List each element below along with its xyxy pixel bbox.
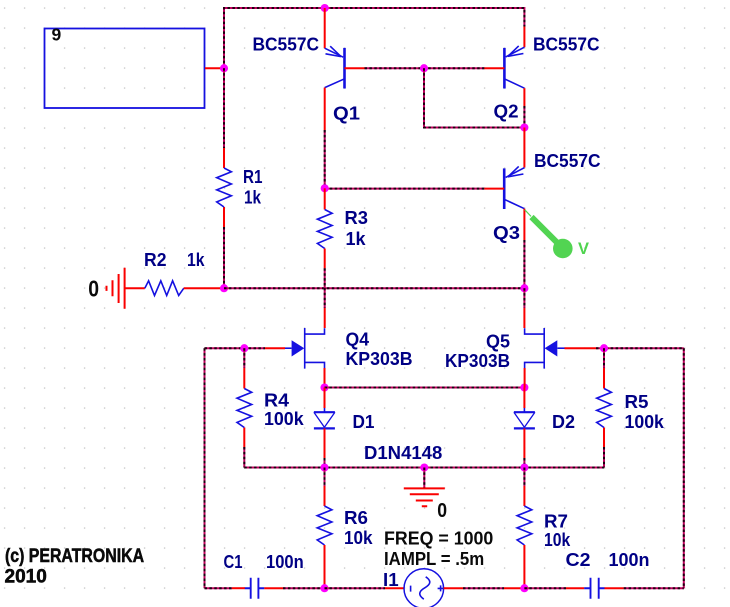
svg-text:9: 9 xyxy=(52,25,62,45)
battery V1 box xyxy=(45,29,205,109)
ground to R2 wire xyxy=(125,287,145,289)
ground 0 (left) symbol xyxy=(107,268,125,309)
node: R5 top / gate xyxy=(600,344,608,352)
transistor Q4 drain pin xyxy=(324,308,326,328)
node: Q5 source / D2 xyxy=(520,383,528,391)
capacitor C1 right pin xyxy=(264,587,283,589)
wire: R1 bottom to left node xyxy=(223,227,225,288)
resistor R6 top wire xyxy=(324,468,326,487)
svg-text:Q5: Q5 xyxy=(486,332,510,352)
wire: D1 to low rail xyxy=(324,458,326,468)
transistor Q2 collector pin xyxy=(523,88,525,106)
transistor Q3 xyxy=(504,166,524,209)
wire: C1 to R6 node xyxy=(283,587,325,589)
diode D2 cathode pin xyxy=(523,428,525,458)
wire: right frame xyxy=(683,348,685,588)
transistor Q2 emitter pin xyxy=(523,27,525,48)
resistor R7 body xyxy=(517,506,532,545)
wire: bottom rail left segment xyxy=(205,587,233,589)
diode D2 xyxy=(514,408,535,428)
svg-text:D1N4148: D1N4148 xyxy=(364,443,442,463)
svg-text:D2: D2 xyxy=(552,412,575,432)
resistor R4 body xyxy=(237,389,252,428)
svg-text:10k: 10k xyxy=(344,528,374,548)
wire red stub into R7 node xyxy=(504,587,524,589)
svg-text:Q2: Q2 xyxy=(494,102,519,122)
node: base rail / feedback xyxy=(420,64,428,72)
wire: D2 to low rail xyxy=(523,458,525,468)
capacitor C2 right pin xyxy=(605,587,624,589)
wire: node to Q3 emitter xyxy=(523,128,525,168)
svg-text:R1: R1 xyxy=(243,167,263,187)
node: Q3 collector / mid rail / Q5 drain xyxy=(520,284,528,292)
node: D1 / low rail xyxy=(320,463,328,471)
transistor Q5 (JFET) xyxy=(525,328,565,369)
svg-text:R4: R4 xyxy=(264,391,289,411)
svg-text:D1: D1 xyxy=(353,412,375,432)
wire: Q2 collector to node xyxy=(523,106,525,128)
resistor R5 top wire xyxy=(603,348,605,368)
svg-text:R6: R6 xyxy=(344,508,368,528)
transistor Q1 emitter pin xyxy=(324,8,326,48)
node: ground / low rail xyxy=(420,463,428,471)
wire: Q5 drain from mid rail xyxy=(523,288,525,308)
capacitor C1 xyxy=(245,587,264,589)
wire: base node down and to Q2 collector xyxy=(424,68,524,127)
capacitor C2 xyxy=(584,587,604,589)
svg-text:1k: 1k xyxy=(244,188,262,208)
wire: Q3 base to R3 node xyxy=(325,188,485,190)
svg-text:V: V xyxy=(578,240,589,258)
svg-text:FREQ = 1000: FREQ = 1000 xyxy=(384,529,493,549)
wire: battery to top rail and VCC top rail xyxy=(224,8,524,68)
svg-text:2010: 2010 xyxy=(5,567,47,588)
transistor Q1 collector pin xyxy=(324,88,326,130)
resistor R7 top wire xyxy=(523,468,525,487)
resistor R5 body xyxy=(597,389,612,428)
svg-text:C1: C1 xyxy=(224,552,243,572)
transistor Q1 base pin xyxy=(345,67,365,69)
wire: left frame xyxy=(204,348,206,588)
wire: R4 bottom to low rail xyxy=(243,447,245,468)
svg-text:100n: 100n xyxy=(609,550,650,570)
capacitor C2 left pin xyxy=(566,587,584,589)
wire: mid rail xyxy=(224,287,524,289)
node: C1 / R6 / I1 xyxy=(320,584,328,592)
diode D1 cathode pin xyxy=(324,428,326,458)
resistor R3 body xyxy=(317,210,332,249)
wire: I1 to R7 node xyxy=(463,587,504,589)
wire: R3 bottom across mid rail to Q4 drain xyxy=(324,268,326,308)
svg-text:BC557C: BC557C xyxy=(534,151,601,171)
resistor R4 pins xyxy=(243,368,245,447)
wire: R5 bottom to low rail xyxy=(603,447,605,468)
transistor Q2 xyxy=(504,46,524,89)
resistor R1 pins xyxy=(223,148,225,227)
wire: gate rail left xyxy=(205,347,266,349)
wire: C2 to right frame xyxy=(624,587,684,589)
transistor Q1 xyxy=(325,46,345,88)
svg-text:(c) PERATRONIKA: (c) PERATRONIKA xyxy=(5,545,144,567)
current source I1 xyxy=(404,569,444,607)
diode D1 xyxy=(314,408,335,428)
transistor Q5 drain pin xyxy=(523,308,525,328)
wire: Q1 base to Q2 base xyxy=(365,67,485,69)
transistor Q3 collector pin xyxy=(523,209,525,240)
transistor Q4 (JFET) xyxy=(285,328,325,369)
node: R4 top / gate xyxy=(240,344,248,352)
svg-text:100k: 100k xyxy=(264,409,305,429)
resistor R7 top pin xyxy=(523,486,525,506)
transistor Q5 gate pin xyxy=(565,347,597,349)
svg-text:IAMPL = .5m: IAMPL = .5m xyxy=(384,549,484,569)
svg-text:KP303B: KP303B xyxy=(445,351,510,371)
transistor Q4 source pin xyxy=(324,368,326,388)
svg-text:R7: R7 xyxy=(544,512,568,532)
wire: source rail Q4 to Q5 xyxy=(325,387,525,389)
node: battery / R1 top xyxy=(220,64,228,72)
wire: low rail xyxy=(244,467,604,469)
transistor Q3 base pin xyxy=(484,188,504,190)
resistor R2 body xyxy=(145,281,184,296)
svg-text:1k: 1k xyxy=(346,229,367,249)
node: Q1 collector / R3 / Q3 base xyxy=(321,184,329,192)
wire: R1 top xyxy=(223,68,225,148)
svg-text:R3: R3 xyxy=(345,208,369,228)
ground 0 (bottom) stub wire xyxy=(423,468,425,489)
resistor R5 pins xyxy=(603,368,605,447)
current source I1 right pin xyxy=(444,587,463,589)
resistor R2 right pin xyxy=(184,287,224,289)
svg-text:100k: 100k xyxy=(625,412,665,432)
current source I1 left pin xyxy=(385,587,404,589)
voltage probe (green) xyxy=(525,210,573,258)
capacitor C1 left pin xyxy=(232,587,245,589)
resistor R1 body xyxy=(217,168,232,207)
svg-text:BC557C: BC557C xyxy=(533,35,600,55)
node: top rail / Q1 emitter xyxy=(321,4,329,12)
wire: Q1 collector to R3 node xyxy=(324,130,326,188)
resistor R3 top pin xyxy=(324,188,326,209)
copyright text xyxy=(5,545,145,588)
resistor R6 top pin xyxy=(324,486,326,506)
diode D2 anode pin xyxy=(523,388,525,409)
transistor Q2 base pin xyxy=(484,67,504,69)
svg-text:R2: R2 xyxy=(144,250,167,270)
resistor R6 bottom pin xyxy=(324,545,326,588)
node: Q2 collector / Q3 emitter xyxy=(520,123,528,131)
node: D2 / low rail xyxy=(520,463,528,471)
transistor Q4 gate pin xyxy=(265,347,285,349)
svg-text:Q3: Q3 xyxy=(493,223,520,243)
svg-text:10k: 10k xyxy=(544,530,571,550)
svg-text:KP303B: KP303B xyxy=(346,349,413,369)
svg-text:0: 0 xyxy=(437,500,447,522)
wire: R7 node to C2 xyxy=(524,587,566,589)
svg-text:1k: 1k xyxy=(187,250,205,270)
ground 0 (bottom) symbol xyxy=(404,488,445,506)
svg-text:0: 0 xyxy=(88,275,99,301)
svg-text:Q4: Q4 xyxy=(346,330,370,350)
node: R7 / I1 / C2 xyxy=(520,584,528,592)
svg-text:R5: R5 xyxy=(625,392,649,412)
resistor R7 bottom pin xyxy=(523,545,525,588)
resistor R3 bottom pin xyxy=(324,249,326,269)
svg-text:BC557C: BC557C xyxy=(253,35,320,55)
transistor Q5 source pin xyxy=(524,368,526,388)
diode D1 anode pin xyxy=(324,388,326,409)
svg-text:100n: 100n xyxy=(266,552,304,572)
wire: R6 node to I1 xyxy=(325,587,386,589)
battery V1 output pin xyxy=(205,67,224,69)
resistor R4 top wire xyxy=(243,348,245,368)
svg-text:I1: I1 xyxy=(383,570,399,590)
svg-text:Q1: Q1 xyxy=(333,103,360,123)
wire: Q3 collector to mid rail xyxy=(523,240,525,288)
svg-text:C2: C2 xyxy=(566,550,591,570)
resistor R6 body xyxy=(317,506,332,545)
node: R2 / R1 / mid rail xyxy=(220,284,228,292)
node: Q4 source / D1 xyxy=(320,383,328,391)
wire: gate rail right xyxy=(596,347,684,349)
